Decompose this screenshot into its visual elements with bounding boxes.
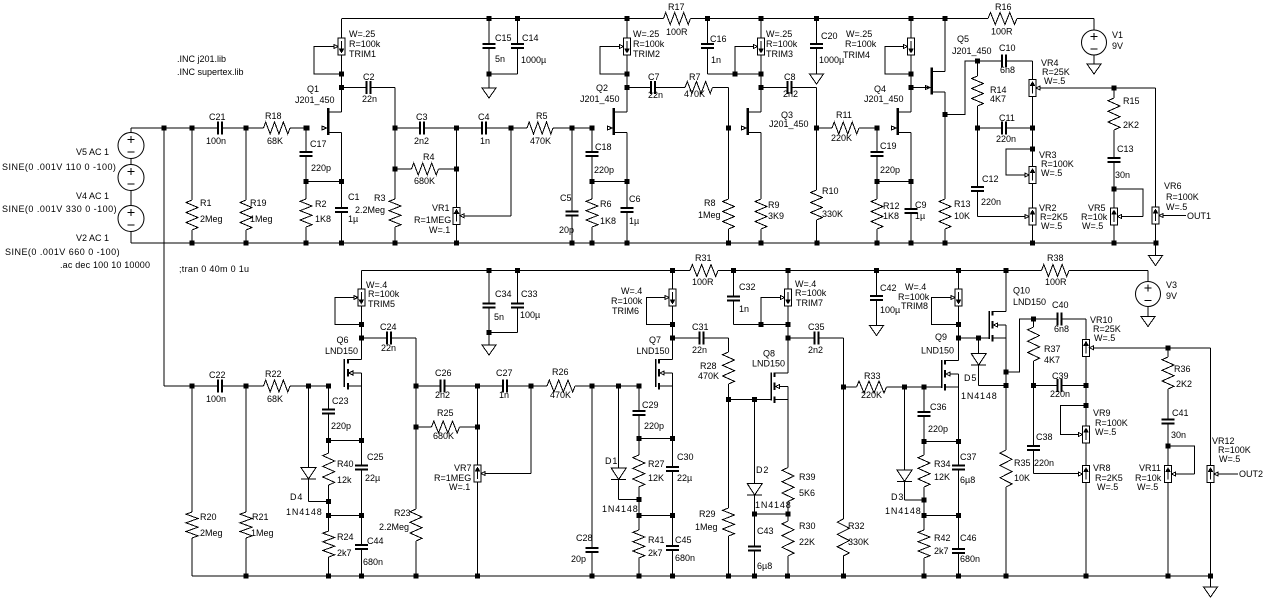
wiper arrow TRIM7 [781,296,785,300]
wire column x416 [415,386,417,427]
resistor R23 [410,427,422,576]
svg-text:V3: V3 [1166,280,1177,290]
svg-text:C30: C30 [677,452,694,462]
wire VR6 bottom [1155,224,1157,243]
label V1 [1112,30,1123,51]
svg-text:10K: 10K [1014,473,1030,483]
label D3 [885,492,922,516]
svg-text:R34: R34 [934,459,951,469]
svg-text:W=.5: W=.5 [1097,482,1118,492]
label R23 [379,508,411,532]
capacitor C1 [335,182,348,244]
capacitor C15 [483,19,496,75]
wiper arrow TRIM1 [334,45,338,49]
svg-text:220p: 220p [311,163,331,173]
svg-text:TRIM5: TRIM5 [368,299,395,309]
wire D1 to R27 node [619,499,639,501]
capacitor C45 [666,516,679,577]
resistor R3 [389,169,401,243]
transistor Q8 LND150 [770,373,788,404]
trimmer TRIM2 [624,38,631,55]
svg-text:LND150: LND150 [637,346,670,356]
svg-text:LND150: LND150 [1013,297,1046,307]
svg-text:220K: 220K [831,133,852,143]
junction [732,71,737,76]
wire Q9 gate row [905,386,942,388]
wire Q9 drain up [958,338,960,361]
svg-text:R11: R11 [836,110,852,120]
wire rail to ground bottom [1210,576,1212,587]
capacitor C17 [300,128,313,182]
junction [190,241,195,246]
svg-text:R19: R19 [250,198,267,208]
svg-text:R=100k: R=100k [611,296,643,306]
junction [244,241,249,246]
svg-text:R18: R18 [265,111,282,121]
label TRIM6 [611,286,643,316]
wire D3 to R34 node [905,499,925,501]
svg-text:LND150: LND150 [921,346,954,356]
svg-text:20p: 20p [559,225,574,235]
wire wiper row down to VR6 [1155,88,1157,207]
label VR11 [1135,463,1162,492]
wire to C46 top [924,514,959,516]
label C44 [363,536,384,567]
svg-text:C33: C33 [521,289,538,299]
junction [909,241,914,246]
label C17 [310,139,331,173]
voltage source V1 9V [1082,30,1107,55]
wire input row [131,127,192,129]
wire VR7 wiper up [530,386,532,474]
svg-text:6n8: 6n8 [1054,324,1069,334]
wiper arrow TRIM2 [620,45,624,49]
wire VR8 bottom [1085,483,1087,577]
label C5 [559,193,574,235]
svg-text:Q1: Q1 [307,84,319,94]
svg-text:W=.5: W=.5 [1219,454,1240,464]
label C41 [1171,408,1189,440]
label .ac directive [60,260,150,270]
capacitor C11 [978,121,1033,134]
svg-text:6µ8: 6µ8 [757,561,772,571]
label V4 SINE [2,204,117,214]
svg-text:R39: R39 [799,472,816,482]
svg-text:470K: 470K [684,89,705,99]
junction [1031,383,1036,388]
wire VR3 to VR2 [1032,184,1034,209]
svg-text:R26: R26 [552,367,569,377]
junction [306,384,311,389]
resistor R2 [300,182,312,244]
wire TRIM6 top [672,271,674,290]
capacitor C29 [632,386,645,439]
junction [909,85,914,90]
label V3 [1166,280,1177,301]
label R2 [315,199,331,224]
svg-text:R41: R41 [648,535,665,545]
transistor Q2 J201_450 [608,108,628,135]
label R9 [768,200,784,221]
svg-text:J201_450: J201_450 [580,94,620,104]
svg-text:1µ: 1µ [348,214,358,224]
label R12 [883,201,900,221]
svg-text:R25: R25 [437,408,454,418]
svg-text:C23: C23 [332,396,349,406]
capacitor C35 [788,331,843,344]
wire V+ rail A segment 3 [1017,18,1094,20]
svg-text:W=.5: W=.5 [1082,221,1103,231]
svg-text:C12: C12 [982,174,999,184]
capacitor C21 [192,121,246,134]
resistor R32 [837,387,849,576]
transistor Q4 J201_450 [892,108,912,135]
junction [570,126,575,131]
label R6 [600,199,616,226]
label VR10 [1090,315,1121,343]
svg-text:1µ: 1µ [915,211,925,221]
junction [487,330,492,335]
svg-text:R=100k: R=100k [633,39,665,49]
resistor R13 [939,115,951,244]
junction [475,384,480,389]
wire Q6 drain up [360,338,362,360]
diode D4 1N4148 [301,468,316,480]
junction [326,499,331,504]
svg-text:Q8: Q8 [763,349,775,359]
svg-text:C3: C3 [416,112,428,122]
label V4 [76,191,109,201]
svg-text:C31: C31 [692,322,709,332]
resistor R19 [240,128,252,243]
svg-text:C37: C37 [960,452,977,462]
junction [414,384,419,389]
junction [475,574,480,579]
capacitor C9 [905,182,918,244]
wire C14 to C15 bottom [489,73,518,75]
wire to C29 node [619,385,639,387]
junction [909,179,914,184]
wire Q9 source down [958,387,960,441]
resistor R14 [972,61,984,128]
label TRIM1 [349,29,381,59]
svg-text:C39: C39 [1052,371,1069,381]
junction [922,385,927,390]
junction [752,397,757,402]
label VR9 [1093,408,1128,437]
junction [625,179,630,184]
svg-text:2k7: 2k7 [934,546,949,556]
svg-text:1N4148: 1N4148 [286,507,323,517]
junction [1084,383,1089,388]
svg-text:Q6: Q6 [337,335,349,345]
capacitor C39 [1034,379,1086,392]
wire TRIM3 top [760,19,762,39]
resistor R39 [782,400,794,515]
label V2 [76,233,109,243]
capacitor C32 [727,271,740,325]
label Q1 [295,84,335,105]
label R36 [1174,364,1192,389]
svg-text:220p: 220p [644,421,664,431]
resistor R15 [1108,88,1120,157]
svg-text:W=.5: W=.5 [1044,76,1065,86]
wire VR5 wiper loop [1114,189,1143,217]
label C23 [331,396,351,431]
capacitor C31 [673,331,729,344]
junction [922,513,927,518]
svg-text:12K: 12K [648,473,664,483]
svg-text:J201_450: J201_450 [952,46,992,56]
wire VR9 to VR8 [1085,443,1087,466]
junction [759,241,764,246]
svg-text:6µ8: 6µ8 [960,475,975,485]
junction [1154,241,1159,246]
svg-text:1K8: 1K8 [883,211,899,221]
ground top-half rail [1149,256,1163,266]
svg-text:Q7: Q7 [649,335,661,345]
svg-text:100n: 100n [206,394,226,404]
capacitor C3 [395,121,457,134]
svg-text:SINE(0 .001V 110 0 -100): SINE(0 .001V 110 0 -100) [2,162,116,172]
label C15 [495,33,512,64]
svg-text:R7: R7 [689,72,701,82]
junction [339,241,344,246]
wire VR1 wiper up [510,128,512,216]
label Q5 [952,34,992,56]
resistor R26 [531,380,592,392]
label C19 [880,141,900,175]
label R28 [698,361,719,381]
junction [393,126,398,131]
junction [616,384,621,389]
junction [726,397,731,402]
svg-text:R=100K: R=100K [1166,192,1199,202]
svg-text:OUT2: OUT2 [1239,469,1263,479]
wire Q8 gate row [729,399,772,401]
svg-text:1K8: 1K8 [315,214,331,224]
svg-text:TRIM8: TRIM8 [901,301,928,311]
capacitor C28 [586,386,599,576]
svg-text:R1: R1 [200,198,212,208]
transistor Q1 J201_450 [322,108,342,135]
junction [956,268,961,273]
wire VR1 column top [456,128,458,207]
wire TRIM2 wiper loop [600,47,627,74]
svg-text:12k: 12k [337,475,352,485]
trimmer TRIM5 [358,289,365,306]
svg-text:C8: C8 [784,72,796,82]
svg-text:1Meg: 1Meg [251,528,274,538]
resistor R24 [323,516,335,577]
junction [875,241,880,246]
wire R34-R42 node [923,500,925,516]
wire R40-R24 node [328,502,330,516]
junction [956,439,961,444]
label C21 [206,112,226,146]
label VR3 [1039,150,1074,178]
trimmer VR8 [1079,466,1090,483]
svg-text:W=.25: W=.25 [349,29,375,39]
wire TRIM1 column [341,55,343,112]
svg-text:SINE(0 .001V 660 0 -100): SINE(0 .001V 660 0 -100) [5,247,120,257]
label D1 [602,456,639,514]
svg-text:R10: R10 [822,186,839,196]
svg-text:W=.1: W=.1 [429,225,450,235]
wire VR9 wiper loop [1061,406,1087,435]
label C28 [571,533,593,564]
svg-text:VR9: VR9 [1093,408,1111,418]
capacitor C36 [918,387,931,441]
capacitor C6 [621,182,634,244]
resistor R30 [782,514,794,576]
wire column x395 [394,128,396,169]
resistor R37 [1028,319,1040,386]
wire VR5 bottom [1113,225,1115,243]
wire ground rail bottom half [192,575,1211,577]
label C9 [915,200,927,221]
label R8 [698,198,721,220]
svg-text:W=.5: W=.5 [1094,333,1115,343]
label Q2 [580,83,620,104]
svg-text:470K: 470K [530,136,551,146]
junction [590,179,595,184]
wire source col to R35 [1005,372,1007,385]
svg-text:220K: 220K [861,390,882,400]
wire Q6 source down [360,386,362,441]
label VR1 [414,203,451,235]
svg-text:Q9: Q9 [935,332,947,342]
wire D5 cathode [978,365,980,386]
junction [359,336,364,341]
svg-text:R16: R16 [995,2,1012,12]
junction [815,241,820,246]
svg-text:C27: C27 [496,368,513,378]
voltage source V4 [118,165,144,191]
svg-text:2Meg: 2Meg [200,214,223,224]
svg-text:.ac dec 100 10 10000: .ac dec 100 10 10000 [60,260,150,270]
label C43 [757,526,774,571]
wire TRIM5 top [360,271,362,290]
svg-text:2K2: 2K2 [1176,379,1192,389]
svg-text:C17: C17 [310,139,327,149]
wire Q7 drain up [672,338,674,360]
junction [304,241,309,246]
capacitor C46 [952,515,965,576]
wire VR7 bottom [477,482,479,576]
svg-text:R15: R15 [1123,96,1140,106]
label C18 [594,142,614,175]
svg-text:C45: C45 [675,535,692,545]
svg-text:5n: 5n [495,54,505,64]
trimmer TRIM4 [908,38,915,55]
svg-text:20p: 20p [571,554,586,564]
svg-text:R3: R3 [374,193,386,203]
resistor R42 [918,515,930,576]
svg-text:22µ: 22µ [677,473,692,483]
label C7 [648,72,663,100]
junction [570,241,575,246]
svg-text:Q2: Q2 [596,83,608,93]
wire D3 anode [904,387,906,470]
junction [956,574,961,579]
svg-text:R35: R35 [1014,458,1031,468]
svg-text:TRIM2: TRIM2 [633,49,660,59]
svg-text:R=1MEG: R=1MEG [414,215,451,225]
svg-text:12K: 12K [934,472,950,482]
trimmer TRIM8 [955,289,962,306]
wiper arrow TRIM6 [665,296,669,300]
junction [956,513,961,518]
svg-text:R=100k: R=100k [368,289,400,299]
label C16 [710,34,727,65]
resistor R34 [918,441,930,500]
label R5 [530,111,551,146]
svg-text:Q10: Q10 [1013,286,1030,296]
svg-text:C7: C7 [648,72,660,82]
junction [636,436,641,441]
capacitor C19 [871,128,884,182]
svg-text:470K: 470K [550,390,571,400]
label C45 [675,535,695,563]
trimmer VR2 [1025,208,1036,225]
resistor R27 [633,439,645,500]
junction [1208,574,1213,579]
resistor R21 [240,386,252,576]
label C11 [996,113,1016,144]
wire TRIM5 wiper loop [335,298,361,325]
label R26 [550,367,571,400]
wire D4 cathode [308,479,310,502]
trimmer TRIM1 [338,38,345,55]
junction [326,384,331,389]
svg-text:TRIM1: TRIM1 [349,49,376,59]
resistor R6 [586,182,598,244]
svg-text:C28: C28 [576,533,593,543]
trimmer VR12 [1207,466,1238,483]
label R10 [822,186,843,219]
svg-text:R30: R30 [799,521,816,531]
wire to C18 node [572,127,592,129]
svg-text:5n: 5n [494,312,504,322]
capacitor C27 [478,379,532,392]
svg-text:1000µ: 1000µ [819,55,844,65]
wire VR4 wiper row [1041,87,1156,89]
label R25 [433,408,454,441]
voltage source V3 9V [1136,282,1161,307]
svg-text:100µ: 100µ [520,310,540,320]
capacitor C13 [1108,157,1121,189]
wire V+ rail C segment 2 [718,270,1042,272]
svg-text:100R: 100R [1045,277,1067,287]
svg-text:R40: R40 [337,459,354,469]
label C40 [1052,300,1069,334]
junction [359,574,364,579]
junction [943,112,948,117]
junction [909,71,914,76]
junction [875,126,880,131]
label R33 [861,371,882,400]
ground below C42 [870,326,884,336]
svg-text:V2 AC 1: V2 AC 1 [76,233,109,243]
resistor R35 [1000,386,1012,577]
label R24 [337,532,354,558]
wire D2-R39 node row [755,513,788,515]
label Q7 [637,335,670,356]
svg-text:R9: R9 [768,200,780,210]
junction [1030,126,1035,131]
resistor R33 [843,381,904,393]
